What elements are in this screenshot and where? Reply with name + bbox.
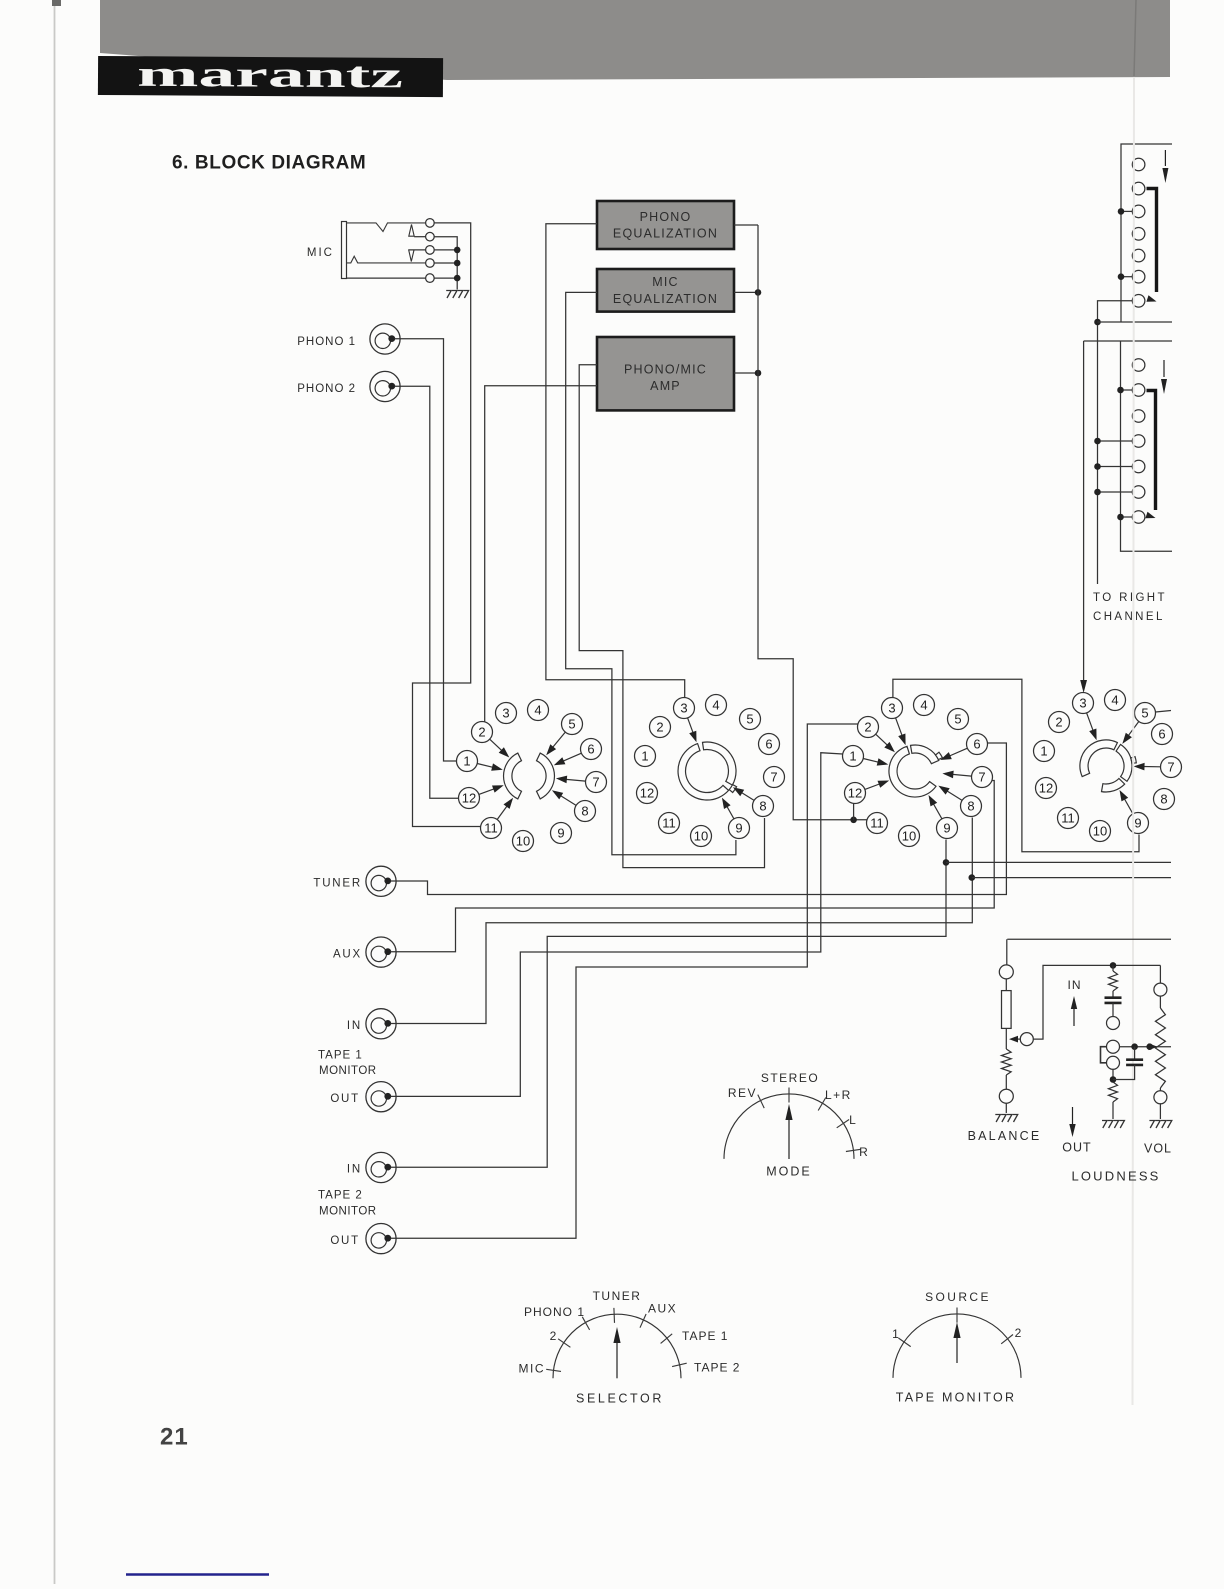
S1a terminal 7 xyxy=(586,772,607,793)
svg-text:EQUALIZATION: EQUALIZATION xyxy=(613,226,718,240)
ground volume xyxy=(1149,1121,1171,1129)
svg-text:AUX: AUX xyxy=(333,949,362,961)
junction xyxy=(454,247,461,254)
S1b terminal 7 xyxy=(764,767,785,788)
jack PHONO 2 xyxy=(370,371,400,401)
svg-text:6: 6 xyxy=(973,737,980,752)
S1d arrow from 3 xyxy=(1087,713,1094,733)
mic terminal 5 xyxy=(426,274,435,283)
S1a rotor blade xyxy=(504,753,522,799)
S1b terminal 5 xyxy=(740,709,761,730)
S1d terminal 4 xyxy=(1105,690,1126,711)
svg-text:2: 2 xyxy=(478,725,485,740)
S1a arrow from 8 xyxy=(558,794,576,805)
S1a terminal 9 xyxy=(551,823,572,844)
svg-text:R: R xyxy=(859,1145,869,1159)
junction tape1-in / right bus xyxy=(969,874,976,881)
svg-text:8: 8 xyxy=(967,799,974,814)
svg-text:2: 2 xyxy=(1055,715,1062,730)
wire sec4 terminal5 stub xyxy=(1156,711,1172,713)
svg-text:PHONO/MIC: PHONO/MIC xyxy=(624,363,707,377)
S1a arrow from 1 xyxy=(477,764,495,768)
S1d terminal 12 xyxy=(1036,778,1057,799)
S1c terminal 4 xyxy=(914,695,935,716)
svg-text:5: 5 xyxy=(568,717,575,732)
needle xyxy=(788,1118,790,1159)
S1a arrow from 11 xyxy=(497,804,508,820)
wire xyxy=(1005,1075,1007,1089)
svg-text:MONITOR: MONITOR xyxy=(319,1206,377,1218)
in arrow xyxy=(1073,1008,1075,1026)
S1b terminal 3 xyxy=(674,698,695,719)
svg-text:3: 3 xyxy=(1079,696,1086,711)
wire phono2 to selector 12 xyxy=(395,386,459,798)
S1c terminal 11 xyxy=(867,813,888,834)
mic terminal 2 xyxy=(426,232,435,241)
S1a terminal 4 xyxy=(528,700,549,721)
S1c arrow from 3 xyxy=(896,718,903,738)
S1a arrow from 7 xyxy=(563,779,585,781)
wire mic terminal 2 ground bus xyxy=(434,237,457,290)
S1d terminal 5 xyxy=(1135,703,1156,724)
wire balance wiper out xyxy=(1033,965,1160,1039)
S1c arrow from 12 xyxy=(865,783,882,789)
wire strip1 terminal7 down xyxy=(1098,301,1133,584)
wire aux bus to sec3 terminal 7 xyxy=(391,781,995,952)
svg-text:4: 4 xyxy=(712,698,719,713)
S1a terminal 11 xyxy=(481,818,502,839)
strip2 stub 7 xyxy=(1121,516,1133,518)
svg-text:MIC: MIC xyxy=(652,275,679,289)
svg-text:AMP: AMP xyxy=(650,379,681,393)
S1b terminal 2 xyxy=(650,717,671,738)
svg-text:12: 12 xyxy=(1039,781,1053,796)
svg-text:1: 1 xyxy=(641,749,648,764)
jack TUNER xyxy=(366,866,396,896)
S1d terminal 3 xyxy=(1073,693,1094,714)
svg-text:TO RIGHT: TO RIGHT xyxy=(1093,592,1167,604)
strip1 terminal 1 xyxy=(1132,158,1145,171)
dial TAPE MONITOR xyxy=(893,1314,1021,1378)
junction xyxy=(1118,208,1125,215)
S1b rotor blade xyxy=(678,744,729,800)
junction xyxy=(454,260,461,267)
svg-text:TUNER: TUNER xyxy=(593,1289,642,1303)
svg-text:IN: IN xyxy=(347,1020,362,1032)
svg-text:SOURCE: SOURCE xyxy=(925,1290,991,1304)
S1a terminal 8 xyxy=(575,801,596,822)
wire mic tip to selector xyxy=(413,223,481,827)
junction xyxy=(755,289,762,296)
wire xyxy=(1159,996,1161,1008)
strip2 stub 2 xyxy=(1121,389,1133,391)
balance resistor body xyxy=(1005,979,1007,991)
S1a terminal 3 xyxy=(496,703,517,724)
strip2 terminal 1 xyxy=(1132,359,1145,372)
S1d terminal 7 xyxy=(1161,757,1182,778)
svg-text:2: 2 xyxy=(656,720,663,735)
svg-text:11: 11 xyxy=(1061,811,1075,826)
S1d terminal 1 xyxy=(1034,741,1055,762)
strip1 stub 6 xyxy=(1121,276,1132,278)
junction xyxy=(1117,514,1124,521)
wire tape2-out bus to sec3 terminal 2 xyxy=(391,724,859,1238)
junction xyxy=(1118,273,1125,280)
S1a terminal 2 xyxy=(472,722,493,743)
S1b arrow from 8 xyxy=(739,791,754,800)
svg-text:3: 3 xyxy=(680,701,687,716)
S1b rotor blade xyxy=(729,785,736,793)
mic jack body xyxy=(342,222,347,279)
svg-text:9: 9 xyxy=(735,821,742,836)
S1c terminal 6 xyxy=(967,734,988,755)
svg-text:1: 1 xyxy=(892,1327,900,1341)
svg-text:STEREO: STEREO xyxy=(761,1071,819,1085)
ground mic xyxy=(446,291,468,299)
junction xyxy=(1110,1076,1117,1083)
svg-text:7: 7 xyxy=(770,770,777,785)
S1c rotor blade xyxy=(889,746,936,797)
svg-text:TAPE 2: TAPE 2 xyxy=(318,1190,363,1202)
block MIC EQUALIZATION xyxy=(597,269,734,312)
balance wiper xyxy=(1020,1033,1033,1046)
S1a terminal 5 xyxy=(562,714,583,735)
S1c terminal 1 xyxy=(843,746,864,767)
volume feed wire xyxy=(1159,965,1161,983)
svg-text:6. BLOCK DIAGRAM: 6. BLOCK DIAGRAM xyxy=(172,153,366,174)
strip1 terminal 5 xyxy=(1132,249,1145,262)
S1a terminal 12 xyxy=(459,788,480,809)
wire xyxy=(1159,1104,1161,1119)
svg-text:BALANCE: BALANCE xyxy=(968,1129,1042,1143)
svg-text:TAPE 2: TAPE 2 xyxy=(694,1361,740,1375)
svg-text:marantz: marantz xyxy=(137,53,403,96)
junction tape2-in / right bus xyxy=(943,859,950,866)
S1d terminal 11 xyxy=(1058,808,1079,829)
svg-text:5: 5 xyxy=(746,712,753,727)
band fold line xyxy=(1134,0,1136,76)
S1c arrow from 6 xyxy=(947,748,967,757)
S1c terminal 9 xyxy=(937,818,958,839)
svg-text:10: 10 xyxy=(516,834,530,849)
svg-text:6: 6 xyxy=(587,742,594,757)
rotary switch S1d xyxy=(1034,690,1182,842)
svg-text:1: 1 xyxy=(1040,744,1047,759)
svg-text:8: 8 xyxy=(1160,792,1167,807)
scan corner mark xyxy=(52,0,61,6)
wire balance feed xyxy=(1007,938,1171,940)
svg-text:4: 4 xyxy=(534,703,541,718)
needle xyxy=(616,1341,618,1378)
svg-text:12: 12 xyxy=(848,786,862,801)
wire xyxy=(1113,1065,1135,1080)
mic terminal 1 xyxy=(426,219,435,228)
junction loudness xyxy=(1110,962,1117,969)
svg-text:TAPE 1: TAPE 1 xyxy=(318,1050,363,1062)
strip1 terminal 7 xyxy=(1132,295,1145,308)
wire xyxy=(1005,1103,1007,1113)
svg-text:2: 2 xyxy=(864,720,871,735)
svg-text:MONITOR: MONITOR xyxy=(319,1065,377,1077)
wire mic terminal 3 stub xyxy=(434,249,457,251)
mic terminal 4 xyxy=(426,259,435,268)
block PHONO EQUALIZATION xyxy=(597,201,734,249)
S1c terminal 3 xyxy=(882,698,903,719)
wire xyxy=(1112,1069,1114,1080)
S1c rotor blade xyxy=(911,745,939,764)
page fold line xyxy=(1133,77,1135,1405)
svg-text:4: 4 xyxy=(1111,693,1118,708)
S1c arrow from 9 xyxy=(932,802,942,819)
svg-text:2: 2 xyxy=(550,1329,558,1343)
mic sleeve wire xyxy=(347,277,426,279)
S1b arrow from 9 xyxy=(726,804,734,819)
S1c arrow from 7 xyxy=(950,774,972,776)
mic ring contact wire xyxy=(409,249,426,251)
jack TAPE2 MONITOR IN xyxy=(366,1152,396,1182)
mic wire contact 2 xyxy=(414,236,425,238)
S1d terminal 8 xyxy=(1154,789,1175,810)
svg-text:AUX: AUX xyxy=(648,1302,677,1316)
svg-text:OUT: OUT xyxy=(1062,1141,1091,1155)
svg-text:5: 5 xyxy=(1141,706,1148,721)
S1b arrow from 3 xyxy=(688,718,694,735)
jack TAPE2 MONITOR OUT xyxy=(366,1224,396,1254)
balance terminal top xyxy=(999,965,1013,979)
svg-text:9: 9 xyxy=(943,821,950,836)
strip2 stub 6 xyxy=(1098,491,1133,493)
svg-text:1: 1 xyxy=(849,749,856,764)
S1b terminal 4 xyxy=(706,695,727,716)
balance terminal bottom xyxy=(999,1089,1013,1103)
mic tip contact xyxy=(347,223,426,232)
svg-text:10: 10 xyxy=(1093,824,1107,839)
S1d terminal 2 xyxy=(1049,712,1070,733)
svg-text:12: 12 xyxy=(640,786,654,801)
svg-text:EQUALIZATION: EQUALIZATION xyxy=(613,292,718,306)
svg-text:IN: IN xyxy=(1068,978,1082,992)
svg-text:MIC: MIC xyxy=(519,1362,546,1376)
junction xyxy=(850,817,857,824)
svg-text:PHONO 1: PHONO 1 xyxy=(524,1305,585,1319)
loudness shunt resistor xyxy=(1112,965,1114,971)
jack PHONO 1 xyxy=(370,324,400,354)
dial SELECTOR xyxy=(553,1314,681,1378)
terminal strip 1 frame xyxy=(1121,144,1172,322)
wire mic-eq output xyxy=(734,291,758,293)
loudness capacitor 2 xyxy=(1134,1047,1136,1060)
svg-text:7: 7 xyxy=(978,770,985,785)
S1a arrow from 5 xyxy=(551,732,565,749)
S1b terminal 6 xyxy=(759,734,780,755)
loudness switch contact b xyxy=(1107,1056,1120,1069)
strip1 jumper bracket xyxy=(1147,189,1157,293)
jack AUX xyxy=(366,937,396,967)
svg-text:5: 5 xyxy=(954,712,961,727)
S1d rotor blade xyxy=(1131,757,1137,764)
svg-text:TAPE MONITOR: TAPE MONITOR xyxy=(896,1391,1016,1405)
strip2 stub 4 xyxy=(1098,440,1133,442)
S1d terminal 6 xyxy=(1152,724,1173,745)
S1c arrow from 8 xyxy=(945,790,962,801)
S1d arrow from 7 xyxy=(1141,766,1161,768)
strip2 terminal 2 xyxy=(1132,384,1145,397)
S1b terminal 11 xyxy=(659,813,680,834)
svg-text:OUT: OUT xyxy=(330,1093,360,1105)
S1c terminal 10 xyxy=(899,826,920,847)
svg-text:CHANNEL: CHANNEL xyxy=(1093,611,1165,623)
page edge line xyxy=(54,0,56,1584)
svg-text:10: 10 xyxy=(694,829,708,844)
strip1 terminal 2 xyxy=(1132,182,1145,195)
marantz logo xyxy=(98,53,443,98)
svg-text:MODE: MODE xyxy=(766,1165,812,1179)
jack TAPE1 MONITOR OUT xyxy=(366,1082,396,1112)
S1d terminal 9 xyxy=(1128,813,1149,834)
volume resistor xyxy=(1155,1008,1165,1088)
svg-text:8: 8 xyxy=(581,804,588,819)
strip2 jumper bracket xyxy=(1147,391,1156,511)
S1a terminal 6 xyxy=(581,739,602,760)
needle xyxy=(956,1336,958,1363)
volume terminal bottom xyxy=(1154,1091,1167,1104)
wire mic-eq input xyxy=(566,292,736,854)
wire phono-eq input xyxy=(546,224,685,698)
S1a terminal 1 xyxy=(457,751,478,772)
strip1 terminal 3 xyxy=(1132,205,1145,218)
strip2 terminal 7 xyxy=(1132,511,1145,524)
wire tape1-out bus to sec3 terminal 1 xyxy=(391,753,843,1097)
junction xyxy=(1094,319,1101,326)
svg-text:7: 7 xyxy=(592,775,599,790)
wire tape2-in bus to sec3 terminal 9 xyxy=(391,840,947,1168)
S1a arrow from 6 xyxy=(561,753,582,762)
volume terminal top xyxy=(1154,983,1167,996)
S1d terminal 10 xyxy=(1090,821,1111,842)
svg-text:OUT: OUT xyxy=(330,1235,360,1247)
S1a arrow from 12 xyxy=(479,788,497,795)
svg-text:MIC: MIC xyxy=(307,247,334,259)
svg-text:7: 7 xyxy=(1167,760,1174,775)
junction xyxy=(1131,1043,1138,1050)
svg-text:10: 10 xyxy=(902,829,916,844)
S1a arrow from 2 xyxy=(490,739,504,752)
svg-text:VOL: VOL xyxy=(1144,1142,1172,1156)
mic terminal 3 xyxy=(426,246,435,255)
strip2 terminal 5 xyxy=(1132,460,1145,473)
junction xyxy=(1146,1043,1153,1050)
S1b terminal 1 xyxy=(635,746,656,767)
S1a terminal 10 xyxy=(513,831,534,852)
rotary switch S1b xyxy=(635,695,785,847)
strip1 down arrow xyxy=(1164,150,1166,166)
svg-text:L+R: L+R xyxy=(825,1088,852,1102)
wire right bus 2 xyxy=(972,877,1171,879)
svg-text:PHONO 2: PHONO 2 xyxy=(297,383,356,395)
strip2 stub 5 xyxy=(1098,466,1133,468)
svg-text:4: 4 xyxy=(920,698,927,713)
junction xyxy=(1094,438,1101,445)
svg-text:TAPE 1: TAPE 1 xyxy=(682,1329,728,1343)
strip1 stub 3 xyxy=(1121,210,1132,212)
svg-text:TUNER: TUNER xyxy=(313,878,362,890)
junction xyxy=(1117,387,1124,394)
svg-text:SELECTOR: SELECTOR xyxy=(576,1392,664,1406)
S1b terminal 12 xyxy=(637,783,658,804)
S1c rotor blade xyxy=(936,752,943,759)
block PHONO/MIC AMP xyxy=(597,337,734,410)
S1b terminal 10 xyxy=(691,826,712,847)
wire amp input 2 xyxy=(485,386,597,723)
wire mic terminal 5 stub xyxy=(434,277,457,279)
S1c terminal 5 xyxy=(948,709,969,730)
wire amp output xyxy=(734,372,758,374)
jack TAPE1 MONITOR IN xyxy=(366,1009,396,1039)
svg-text:PHONO: PHONO xyxy=(640,210,692,224)
S1c arrow from 1 xyxy=(863,759,881,763)
S1c terminal 2 xyxy=(858,717,879,738)
junction xyxy=(454,275,461,282)
wire sec3 terminal3 to sec4 loop xyxy=(893,679,1139,852)
junction xyxy=(1094,463,1101,470)
S1d rotor blade xyxy=(1080,740,1117,777)
strip2 terminal 4 xyxy=(1132,435,1145,448)
wire phono1 to selector 1 xyxy=(395,339,457,761)
dial MODE xyxy=(724,1094,854,1159)
wire xyxy=(1112,1102,1114,1119)
S1b rotor blade xyxy=(703,742,737,785)
svg-text:12: 12 xyxy=(462,791,476,806)
svg-text:REV: REV xyxy=(728,1086,757,1100)
svg-text:2: 2 xyxy=(1015,1326,1023,1340)
svg-text:3: 3 xyxy=(502,706,509,721)
svg-text:11: 11 xyxy=(662,816,676,831)
wire tuner bus to sec3 terminal 6 xyxy=(391,743,1007,895)
svg-text:IN: IN xyxy=(347,1164,362,1176)
svg-text:PHONO 1: PHONO 1 xyxy=(297,336,356,348)
wire to-right-channel arrow into sec4 xyxy=(1083,341,1085,683)
svg-text:11: 11 xyxy=(484,821,498,836)
wire tape1-in bus to sec3 terminal 8 xyxy=(391,818,973,1024)
mic contact triangle upper xyxy=(409,225,414,237)
svg-text:L: L xyxy=(849,1113,857,1127)
S1c terminal 8 xyxy=(961,796,982,817)
S1a rotor blade xyxy=(537,753,555,799)
top gray band xyxy=(100,0,1170,80)
strip1 terminal 6 xyxy=(1132,270,1145,283)
strip1 terminal 4 xyxy=(1132,228,1145,241)
svg-text:LOUDNESS: LOUDNESS xyxy=(1071,1169,1160,1184)
strip2 down arrow xyxy=(1163,360,1165,377)
strip2 terminal 6 xyxy=(1132,486,1145,499)
wire xyxy=(1159,1088,1161,1091)
loudness switch bracket xyxy=(1101,1047,1107,1063)
wire loudness wiper bus xyxy=(1120,1046,1172,1048)
wire phono-eq output xyxy=(734,224,758,226)
ground balance xyxy=(995,1115,1017,1123)
wire mic terminal 4 stub xyxy=(434,262,457,264)
balance lower resistor xyxy=(1002,1049,1012,1075)
rotary switch S1c xyxy=(843,695,993,847)
svg-text:3: 3 xyxy=(888,701,895,716)
loudness capacitor 1 xyxy=(1105,998,1122,1003)
S1b terminal 9 xyxy=(729,818,750,839)
svg-text:21: 21 xyxy=(160,1424,189,1451)
wire stub to sec3 terminal 12 xyxy=(853,802,855,820)
svg-text:9: 9 xyxy=(1134,816,1141,831)
loudness lower resistor xyxy=(1109,1082,1118,1102)
svg-text:8: 8 xyxy=(759,799,766,814)
